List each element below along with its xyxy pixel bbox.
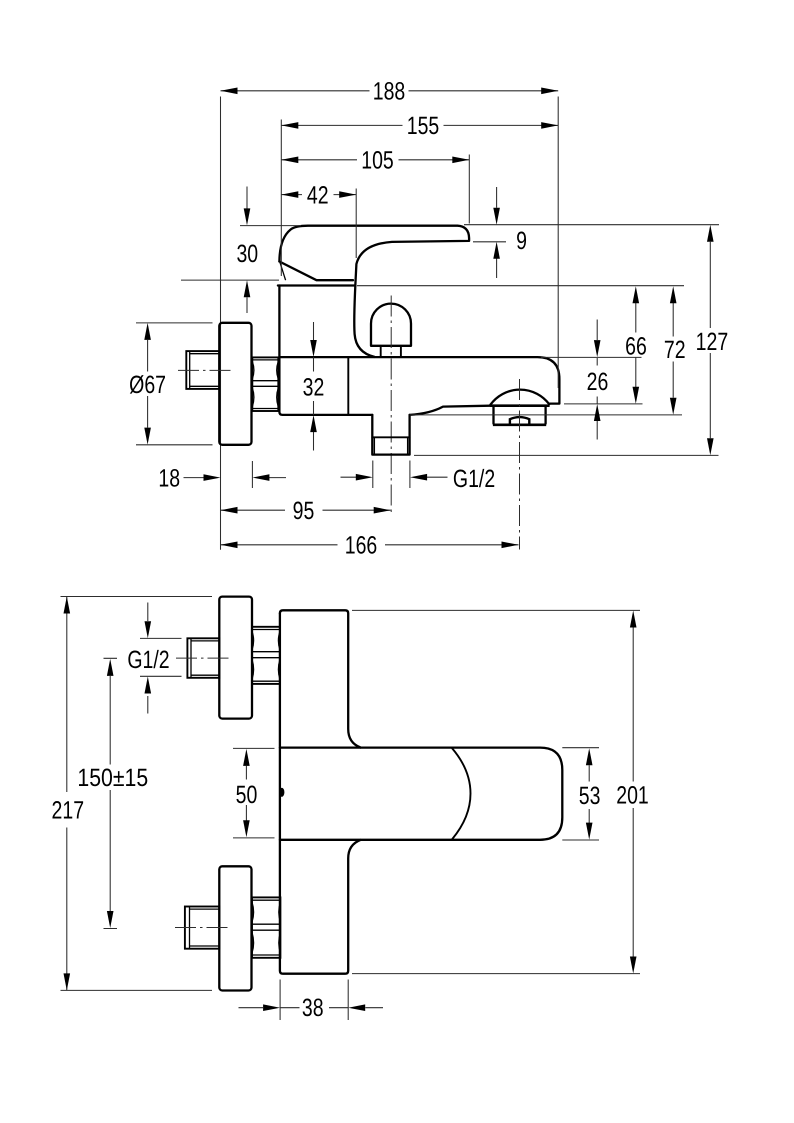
dim 53 (579, 748, 601, 839)
extension lines bottom view (61, 596, 213, 598)
wall plane extension line (220, 97, 222, 550)
hex nut on union (252, 357, 278, 411)
svg-text:95: 95 (293, 497, 315, 525)
lever handle (279, 226, 469, 286)
svg-text:32: 32 (303, 374, 325, 402)
svg-text:201: 201 (616, 782, 649, 810)
front view body bar (280, 610, 361, 747)
cartridge housing right side fillet into body (354, 286, 374, 357)
upper wall flange, front view (219, 597, 252, 719)
svg-text:9: 9 (516, 227, 527, 255)
dim 66 (625, 286, 647, 404)
svg-text:50: 50 (236, 781, 258, 809)
svg-text:217: 217 (52, 797, 85, 825)
svg-text:155: 155 (407, 112, 440, 140)
small mark on body left edge (279, 788, 284, 797)
dim 32 (303, 322, 325, 451)
dim 201 (616, 611, 649, 974)
lower hex nut (252, 897, 280, 957)
svg-text:26: 26 (587, 368, 609, 396)
svg-text:105: 105 (361, 147, 394, 175)
aerator screen insert (510, 417, 529, 424)
aerator body (494, 407, 546, 424)
svg-text:72: 72 (664, 336, 686, 364)
dim 38 (239, 994, 384, 1022)
dim 105 (281, 147, 469, 175)
wall flange (escutcheon), side view (219, 323, 251, 445)
svg-text:18: 18 (158, 464, 180, 492)
svg-text:188: 188 (373, 78, 406, 106)
dim 150 plus-minus 15 (77, 659, 148, 928)
spout inner opening curve (452, 749, 470, 840)
spout block front view (280, 748, 562, 840)
lower threaded nipple G1/2 (185, 907, 219, 949)
escutcheon cap line under handle (278, 284, 354, 286)
svg-text:53: 53 (579, 782, 601, 810)
label G1/2 shower outlet (341, 465, 496, 493)
dim 95 (221, 497, 391, 525)
upper threaded nipple G1/2 (187, 638, 219, 678)
svg-text:38: 38 (302, 994, 324, 1022)
upper supply centerline (176, 657, 231, 659)
body step line (347, 357, 349, 415)
svg-text:127: 127 (696, 328, 729, 356)
mixer body, side view (279, 286, 559, 415)
shower hose outlet G1/2 (372, 415, 409, 455)
dim 30 (236, 187, 258, 314)
handle skirt (279, 262, 353, 281)
diverter dome knob (371, 304, 411, 346)
dim 9 (493, 187, 527, 278)
dim diameter 67 (129, 323, 166, 445)
svg-text:150±15: 150±15 (77, 764, 148, 792)
dome / outlet centerline (390, 296, 392, 516)
dim 217 (52, 597, 85, 991)
dim 72 (664, 286, 686, 415)
dim 155 (281, 112, 558, 140)
dim 166 (221, 531, 519, 559)
extension lines top view (280, 120, 282, 277)
dim 26 (587, 320, 609, 440)
aerator centerline (519, 379, 521, 550)
lower supply centerline (175, 927, 232, 929)
handle skirt inner wedge line (280, 263, 286, 280)
svg-text:166: 166 (345, 531, 378, 559)
svg-text:G1/2: G1/2 (453, 465, 495, 493)
aerator bump arc on spout underside (491, 390, 550, 405)
upper hex nut (252, 627, 280, 684)
svg-text:30: 30 (236, 240, 258, 268)
threaded nipple G1/2, side view (186, 351, 219, 389)
aerator flange plate (490, 404, 550, 407)
dim 188 (221, 78, 559, 106)
svg-text:G1/2: G1/2 (127, 646, 169, 674)
lower wall flange, front view (219, 866, 251, 990)
nipple centerline (178, 369, 232, 371)
svg-text:42: 42 (307, 181, 329, 209)
dim 42 (281, 181, 356, 209)
body bar lower right fillet (280, 613, 361, 973)
dome neck (381, 346, 401, 357)
dim 127 (696, 225, 729, 455)
label G1/2 upper supply (127, 603, 169, 714)
dim 18 (158, 464, 286, 492)
dim 50 (236, 749, 258, 837)
svg-text:66: 66 (625, 332, 647, 360)
svg-text:Ø67: Ø67 (129, 371, 166, 399)
